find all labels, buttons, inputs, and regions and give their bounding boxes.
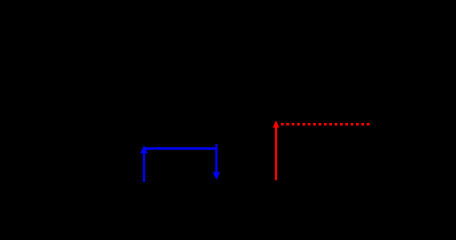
blue up impulse arrowhead	[140, 145, 147, 153]
red impulse arrowhead	[273, 120, 280, 127]
blue horizontal level line	[143, 147, 216, 150]
red impulse arrow stem	[275, 127, 277, 180]
blue down impulse arrowhead	[213, 172, 220, 180]
blue up impulse arrow stem	[143, 153, 145, 183]
red dotted level line	[281, 123, 370, 126]
blue down impulse arrow stem	[215, 144, 217, 173]
